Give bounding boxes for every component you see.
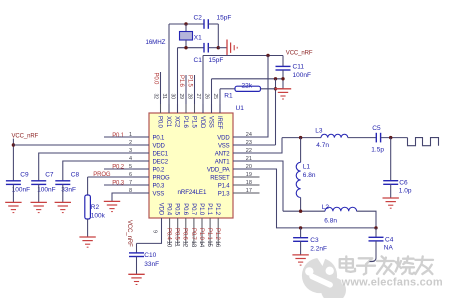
svg-text:P0.612: P0.612 [182, 228, 188, 248]
node X1 bottom junction [184, 46, 187, 49]
svg-text:22k: 22k [242, 82, 253, 89]
svg-text:P1.4: P1.4 [218, 183, 231, 189]
wire C2 right [208, 23, 218, 25]
svg-text:VCC_nRF: VCC_nRF [126, 220, 132, 247]
wire VCC left vertical [12, 139, 14, 181]
svg-text:32: 32 [153, 94, 159, 100]
wire pin23 VSS riser [233, 79, 276, 145]
svg-text:ANT1: ANT1 [215, 159, 231, 165]
svg-text:VDD_PA: VDD_PA [207, 167, 230, 173]
label 15pF C1 [209, 57, 224, 64]
wire VCC_nRF top rail [203, 55, 283, 57]
resistor R2 [85, 195, 91, 219]
svg-text:VDD: VDD [158, 203, 164, 216]
label C4 [385, 237, 394, 244]
svg-text:P0.1: P0.1 [153, 135, 166, 141]
wire R2 to ground [87, 219, 89, 237]
label 6.8n L1 [303, 172, 316, 179]
svg-text:VDD: VDD [199, 116, 205, 129]
antenna meander [408, 138, 439, 146]
ground under R2 [79, 237, 95, 247]
svg-text:P0.2: P0.2 [153, 167, 166, 173]
svg-text:C9: C9 [20, 171, 29, 178]
capacitor C7 [31, 181, 46, 185]
wire C8 to ground [62, 184, 64, 202]
pin number 9 [152, 230, 158, 233]
label 15pF C2 [217, 15, 232, 22]
svg-text:P1.014: P1.014 [198, 228, 204, 248]
wire pin4 DEC2 [63, 161, 149, 181]
inductor L3 [321, 134, 348, 137]
net label PROG [93, 172, 111, 178]
watermark elecfans logo [302, 252, 346, 298]
wire R1 to ground [261, 88, 284, 90]
svg-text:DEC2: DEC2 [153, 159, 169, 165]
wire C11 to ground [282, 70, 284, 89]
IC U1 right pin names [207, 135, 230, 197]
inductor L2 [325, 207, 357, 211]
svg-text:P1.1: P1.1 [206, 203, 212, 216]
svg-text:P0.410: P0.410 [166, 228, 172, 248]
svg-text:4.7n: 4.7n [316, 142, 329, 149]
svg-text:1.0p: 1.0p [399, 188, 412, 195]
power port VCC_nRF bottom rotated [126, 220, 132, 247]
power port VCC_nRF left [12, 134, 39, 140]
wire C9 to ground [12, 184, 14, 202]
wire IREF pin25 up [219, 89, 221, 113]
svg-text:VSS: VSS [153, 191, 165, 197]
wire C7 to ground [38, 184, 40, 202]
label NA C4 [384, 245, 394, 252]
wire C6 riser [390, 138, 392, 181]
svg-text:6.8n: 6.8n [324, 217, 337, 224]
IC U1 left pin names [153, 135, 171, 197]
node VCC left junction [12, 143, 15, 146]
label 1.5p C5 [371, 146, 384, 153]
IC U1 left pin stubs [133, 137, 149, 193]
label 6.8n L2 [324, 217, 337, 224]
wire C6 to ground [390, 184, 392, 198]
svg-text:29: 29 [178, 94, 184, 100]
svg-text:nRF24LE1: nRF24LE1 [178, 189, 207, 196]
svg-text:27: 27 [195, 94, 201, 100]
svg-text:VCC_nRF: VCC_nRF [12, 134, 39, 140]
svg-text:X1: X1 [194, 34, 202, 41]
wire C5 to antenna [381, 137, 408, 139]
capacitor C5 [376, 133, 380, 143]
svg-text:VDD: VDD [153, 143, 166, 149]
label 4.7n L3 [316, 142, 329, 149]
svg-text:P0.1: P0.1 [112, 133, 125, 139]
inductor L1 [296, 138, 300, 212]
wire VDD pin27 up [202, 56, 204, 114]
wire pin28 P1.5 up [194, 75, 196, 104]
svg-text:VSS: VSS [218, 143, 230, 149]
label 100nF C11 [293, 72, 311, 79]
wire L3 to C5 [348, 137, 377, 139]
wire pin1 P0.1 [104, 136, 149, 138]
IC U1 right pin stubs [233, 137, 260, 193]
svg-text:1.5p: 1.5p [371, 146, 384, 153]
ground under C3 [292, 255, 308, 265]
svg-text:P1.216: P1.216 [214, 228, 220, 248]
node pin23 riser R1 wire [274, 87, 277, 90]
svg-text:L2: L2 [322, 204, 330, 211]
svg-text:P1.2: P1.2 [214, 203, 220, 216]
svg-text:P1.5: P1.5 [191, 116, 197, 129]
svg-text:C3: C3 [310, 237, 319, 244]
ground near C11 [275, 89, 291, 99]
wire ANT1 to L2 [283, 210, 325, 212]
svg-text:IREF: IREF [216, 116, 222, 130]
capacitor C3 [293, 238, 308, 242]
svg-text:100nF: 100nF [12, 187, 30, 194]
svg-text:25: 25 [212, 94, 218, 100]
watermark text dianzi fashaoyou [339, 255, 434, 274]
label 22k [242, 82, 253, 89]
wire C3 riser [300, 228, 302, 238]
net labels and pin numbers 10-16 under IC [166, 228, 221, 248]
svg-text:P1.6: P1.6 [178, 75, 184, 88]
capacitor C11 [276, 66, 291, 70]
node VSS wire pin23 riser [274, 77, 277, 80]
net label P0.2 [112, 164, 125, 170]
wire pin22 ANT2 [233, 138, 282, 153]
wire pin8 VSS [112, 193, 149, 201]
svg-text:P0.0: P0.0 [157, 116, 163, 129]
svg-text:C10: C10 [144, 252, 156, 259]
svg-text:100nF: 100nF [37, 187, 55, 194]
svg-text:17: 17 [246, 188, 252, 194]
svg-text:VSS: VSS [208, 116, 214, 128]
node L1 bottom junction [299, 210, 302, 213]
wire C2 down to ground node [217, 24, 219, 48]
svg-text:P0.6: P0.6 [182, 203, 188, 216]
svg-text:P0.3: P0.3 [153, 183, 166, 189]
capacitor C6 [383, 181, 398, 185]
svg-text:U1: U1 [236, 105, 245, 112]
svg-text:C4: C4 [385, 237, 394, 244]
svg-text:DEC1: DEC1 [153, 151, 169, 157]
wire pin29 P1.6 up [185, 75, 187, 104]
svg-text:P1.115: P1.115 [206, 228, 212, 247]
svg-text:C11: C11 [293, 63, 305, 70]
wire C1 right [208, 47, 218, 49]
label 1.0p C6 [399, 188, 412, 195]
svg-text:15pF: 15pF [209, 57, 224, 64]
pin numbers 32-25 [153, 94, 219, 100]
svg-text:XC2: XC2 [174, 116, 180, 128]
svg-text:100k: 100k [91, 212, 106, 219]
label C1 [194, 57, 203, 64]
wire pin6 PROG [88, 176, 149, 178]
svg-text:P0.0: P0.0 [152, 73, 158, 86]
svg-text:2.2nF: 2.2nF [310, 245, 327, 252]
wire C10 riser [136, 243, 138, 253]
svg-text:P0.7: P0.7 [190, 203, 196, 216]
net label P0.3 [112, 180, 125, 186]
svg-text:C2: C2 [194, 15, 203, 22]
wire pin2 VDD [13, 144, 149, 146]
svg-text:30: 30 [170, 94, 176, 100]
net label P1.5 [186, 75, 192, 88]
wire C4 stub [370, 241, 377, 262]
wire IREF to R1 [220, 88, 235, 90]
wire pin20 VDD_PA [233, 169, 376, 228]
label 100nF C9 [12, 187, 30, 194]
svg-text:VDD: VDD [217, 135, 230, 141]
net label P0.1 [112, 133, 125, 139]
svg-text:100nF: 100nF [293, 72, 311, 79]
label L1 [303, 164, 311, 171]
label C10 [144, 252, 156, 259]
svg-text:P1.3: P1.3 [218, 191, 231, 197]
label C9 [20, 171, 29, 178]
svg-text:L3: L3 [315, 128, 323, 135]
svg-text:NA: NA [384, 245, 394, 252]
capacitor C4 [369, 237, 384, 241]
svg-text:www.elecfans.com: www.elecfans.com [341, 276, 443, 288]
svg-text:P0.4: P0.4 [166, 203, 172, 216]
IC U1 bottom pin stubs [170, 218, 219, 245]
svg-text:PROG: PROG [153, 175, 171, 181]
svg-text:ANT2: ANT2 [215, 151, 231, 157]
wire C11 riser [282, 56, 284, 67]
node X1 top junction [184, 22, 187, 25]
watermark url www.elecfans.com [340, 275, 443, 288]
net label P0.0 [152, 73, 158, 86]
wire to sideways ground [218, 47, 227, 49]
ground under C6 [383, 198, 399, 208]
svg-text:26: 26 [204, 94, 210, 100]
IC U1 top pin names [157, 116, 223, 130]
capacitor C2 [204, 19, 208, 29]
label 100k [91, 212, 106, 219]
svg-text:P1.6: P1.6 [182, 116, 188, 129]
label L2 [322, 204, 330, 211]
wire pin9 VDD down [137, 218, 162, 243]
svg-text:P1.5: P1.5 [186, 75, 192, 88]
wire VSS pin26 up [211, 79, 213, 113]
wire pin3 DEC1 [39, 153, 149, 181]
node antenna junction [389, 136, 392, 139]
wire C4 riser [375, 228, 377, 237]
label 100nF C7 [37, 187, 55, 194]
label R1 [224, 93, 233, 100]
wire XC1 top horizontal [169, 23, 204, 25]
wire pin24 VDD [233, 56, 268, 138]
svg-text:C8: C8 [71, 171, 80, 178]
svg-text:9: 9 [152, 230, 158, 233]
svg-text:33nF: 33nF [61, 187, 76, 194]
node VSS wire C11 riser [281, 77, 284, 80]
pin numbers 1-8 [129, 132, 132, 194]
label C11 [293, 63, 305, 70]
capacitor C9 [6, 181, 21, 185]
node L1 top junction [299, 136, 302, 139]
IC U1 bottom pin names [158, 203, 221, 216]
wire pin7 P0.3 [104, 184, 149, 186]
ground pin8 [104, 201, 120, 211]
pin numbers 24-17 [246, 132, 252, 194]
resistor R1 [235, 86, 261, 91]
svg-text:P0.713: P0.713 [190, 228, 196, 248]
svg-text:P0.511: P0.511 [174, 228, 180, 247]
svg-text:18: 18 [246, 180, 252, 186]
label R2 [91, 204, 100, 211]
wire VSS top horizontal [212, 78, 284, 80]
svg-text:15pF: 15pF [217, 15, 232, 22]
svg-text:28: 28 [187, 94, 193, 100]
op-amp U1 nRF24LE1 IC body [149, 105, 244, 218]
svg-text:C7: C7 [45, 171, 54, 178]
label X1 [194, 34, 202, 41]
wire XC1 pin31 up [168, 24, 170, 113]
wire pin21 ANT1 [233, 161, 283, 211]
wire C10 to ground [136, 257, 138, 275]
label L3 [315, 128, 323, 135]
label C7 [45, 171, 54, 178]
label C3 [310, 237, 319, 244]
svg-text:P0.5: P0.5 [174, 203, 180, 216]
svg-text:16MHZ: 16MHZ [146, 39, 166, 46]
ground under C10 [128, 274, 144, 284]
label 33nF C10 [144, 261, 159, 268]
svg-text:P1.0: P1.0 [198, 203, 204, 216]
IC U1 top pin stubs [161, 104, 221, 113]
ground under C9 [5, 202, 21, 212]
label 16MHZ [146, 39, 166, 46]
net label P1.6 [178, 75, 184, 88]
svg-text:C5: C5 [372, 125, 381, 132]
svg-text:XC1: XC1 [165, 116, 171, 128]
wire ANT2 to L3 [282, 137, 321, 139]
svg-text:R1: R1 [224, 93, 233, 100]
node C4 junction [374, 226, 377, 229]
ground under C8 [55, 202, 71, 212]
svg-text:L1: L1 [303, 164, 311, 171]
wire L2 right [357, 211, 376, 228]
svg-text:33nF: 33nF [144, 261, 159, 268]
node VCC rail junction pin24 [266, 54, 269, 57]
crystal X1 [180, 24, 193, 48]
svg-text:6.8n: 6.8n [303, 172, 316, 179]
wire PROG to R2 [87, 177, 89, 195]
wire XC2 horizontal [178, 47, 205, 49]
svg-text:RESET: RESET [210, 175, 230, 181]
ground sideways crystal caps [227, 40, 237, 56]
wire C3 to ground [300, 241, 302, 255]
node C3 junction [299, 226, 302, 229]
capacitor C8 [55, 181, 70, 185]
svg-text:R2: R2 [91, 204, 100, 211]
node crystal ground junction [217, 46, 220, 49]
ground under C7 [31, 202, 47, 212]
label C2 [194, 15, 203, 22]
label C5 [372, 125, 381, 132]
wire pin5 P0.2 [104, 168, 149, 170]
svg-text:31: 31 [161, 94, 167, 100]
svg-text:19: 19 [246, 172, 252, 178]
capacitor C10 [129, 253, 144, 257]
label C8 [71, 171, 80, 178]
wire pin32 P0.0 up [160, 72, 162, 104]
power port VCC_nRF top [286, 50, 313, 56]
svg-text:VCC_nRF: VCC_nRF [286, 50, 313, 56]
wire XC2 pin30 up [177, 48, 179, 113]
label C6 [399, 180, 408, 187]
svg-text:C6: C6 [399, 180, 408, 187]
capacitor C1 [204, 43, 208, 53]
svg-text:C1: C1 [194, 57, 203, 64]
label 2.2nF C3 [310, 245, 327, 252]
label 33nF C8 [61, 187, 76, 194]
